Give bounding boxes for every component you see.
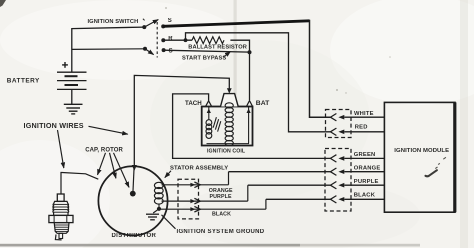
ignition switch blade 1 — [144, 20, 158, 28]
svg-text:START BYPASS: START BYPASS — [182, 55, 226, 61]
scanner edge band bottom — [0, 244, 300, 247]
ignition coil box U-COIL — [202, 107, 253, 146]
wire bypass junction down to BAT terminal — [249, 52, 251, 100]
spark plug electrodes — [59, 233, 63, 238]
arrowhead into coil tower — [227, 88, 232, 93]
switch mechanical link (dashed) — [156, 22, 158, 58]
start switch blade 2 — [145, 49, 154, 55]
spark plug threaded shell — [54, 223, 69, 234]
tick after switch label — [143, 19, 145, 21]
spark plug insulator — [53, 201, 69, 215]
wire red branch riser and run to red plug — [186, 33, 331, 132]
ignition switch pivot 1 — [142, 25, 146, 29]
wire black from ground dot — [159, 208, 266, 210]
coil secondary/BAT internal lead — [248, 107, 250, 144]
paper specks — [336, 89, 338, 91]
pin RED male arrow — [338, 130, 344, 135]
tach wire loop to green plug — [173, 94, 331, 158]
wire battery tap to start pivot 2 — [72, 48, 145, 51]
leader to rotor — [114, 153, 130, 188]
paper mottling — [0, 0, 240, 80]
contact S2 — [162, 48, 166, 52]
svg-text:ORANGE: ORANGE — [209, 188, 233, 194]
coil bottom bus — [207, 143, 250, 145]
pin PURPLE male arrow — [338, 183, 344, 188]
pin WHITE male arrow — [338, 115, 344, 120]
coil primary winding — [206, 120, 212, 126]
module connector upper box (dashed) — [326, 110, 352, 138]
pin orange arrow — [190, 183, 195, 187]
wire black riser to module run — [265, 199, 267, 209]
junction start bypass — [248, 50, 252, 54]
svg-text:GREEN: GREEN — [354, 152, 376, 158]
coil tower — [221, 94, 239, 107]
distributor body circle — [98, 166, 167, 235]
spark plug wire from cap — [61, 173, 98, 195]
BAT terminal chevron — [247, 101, 253, 107]
pin black arrow — [190, 207, 195, 211]
leader to cap right — [110, 153, 116, 179]
coil primary lead internal — [208, 107, 210, 120]
leader to coil HT wire — [89, 126, 128, 134]
battery to ground wire — [71, 89, 73, 104]
svg-text:ORANGE: ORANGE — [354, 165, 381, 171]
arrowhead into distributor cap — [132, 165, 137, 171]
ignition module box U1 — [384, 102, 455, 212]
coil secondary winding — [225, 103, 233, 108]
wire orange riser to module run — [228, 172, 230, 185]
distributor connector box (dashed) — [178, 179, 199, 219]
pin purple arrow — [190, 199, 195, 203]
svg-text:PURPLE: PURPLE — [354, 179, 379, 185]
svg-text:DISTRIBUTOR: DISTRIBUTOR — [112, 233, 157, 239]
svg-text:BATTERY: BATTERY — [7, 78, 40, 85]
ground junction dot — [157, 207, 161, 211]
svg-text:BAT: BAT — [256, 100, 270, 107]
svg-text:IGNITION SYSTEM GROUND: IGNITION SYSTEM GROUND — [177, 229, 265, 235]
svg-text:BALLAST RESISTOR: BALLAST RESISTOR — [188, 45, 247, 51]
coil core hatching — [213, 117, 216, 127]
pin RED chevron — [330, 128, 336, 135]
spark plug hex — [49, 215, 73, 222]
battery ground symbol — [64, 103, 83, 105]
battery plus sign — [64, 62, 66, 68]
TACH terminal chevron — [206, 101, 212, 106]
svg-text:BLACK: BLACK — [354, 193, 376, 199]
wire purple riser to module run — [247, 185, 249, 201]
wire start bypass from S2 — [164, 50, 250, 52]
pin GREEN male arrow — [338, 156, 344, 161]
battery plates — [57, 71, 87, 73]
spark plug terminal nub — [57, 194, 64, 201]
pin ORANGE male arrow — [338, 169, 344, 174]
pin PURPLE chevron — [330, 182, 336, 189]
svg-text:RED: RED — [355, 125, 368, 131]
ignition system ground symbol — [153, 209, 159, 213]
svg-text:BLACK: BLACK — [212, 212, 231, 218]
paper crease streak — [234, 0, 237, 98]
svg-text:TACH: TACH — [185, 100, 202, 107]
svg-text:R: R — [168, 36, 173, 42]
pin BLACK chevron — [330, 196, 336, 203]
svg-text:IGNITION WIRES: IGNITION WIRES — [24, 121, 84, 130]
pin BLACK male arrow — [338, 197, 344, 202]
svg-text:WHITE: WHITE — [354, 111, 374, 117]
wire battery to switch pivot 1 — [72, 27, 145, 71]
module shadow edge — [453, 102, 456, 212]
svg-text:S: S — [168, 18, 172, 24]
module connector lower box (dashed) — [325, 149, 351, 212]
start switch pivot 2 — [143, 47, 147, 51]
wire R to resistor junction — [163, 39, 192, 41]
svg-text:IGNITION SWITCH: IGNITION SWITCH — [88, 19, 139, 25]
svg-text:IGNITION MODULE: IGNITION MODULE — [394, 148, 449, 154]
stator pickup coil — [154, 182, 163, 188]
pin GREEN chevron — [330, 155, 336, 162]
pin ORANGE chevron — [330, 168, 336, 175]
contact R — [161, 38, 165, 42]
corner blob top-left — [0, 0, 6, 7]
contact S1 — [161, 24, 165, 28]
leader to cap left — [98, 153, 106, 175]
wire purple from stator bottom — [162, 200, 248, 202]
wire orange from stator top — [162, 184, 229, 186]
wire resistor output to bypass junction — [230, 40, 249, 52]
rotor center dot — [130, 191, 136, 197]
ballast resistor — [192, 37, 224, 44]
rotor stem inside cap — [133, 169, 134, 191]
handwritten squiggle in module — [426, 170, 437, 176]
coil high tension wire (distributor to coil tower) — [134, 75, 229, 165]
svg-text:S: S — [169, 49, 173, 55]
svg-text:STATOR ASSEMBLY: STATOR ASSEMBLY — [170, 166, 228, 172]
leader down to plug wire — [58, 130, 64, 168]
wire S1 to white plug (thick run + drop) — [163, 21, 309, 27]
junction R / red riser — [184, 38, 188, 42]
svg-text:IGNITION COIL: IGNITION COIL — [207, 149, 246, 155]
pin WHITE chevron — [330, 114, 336, 121]
svg-text:CAP, ROTOR: CAP, ROTOR — [85, 147, 123, 153]
svg-text:PURPLE: PURPLE — [210, 194, 232, 200]
